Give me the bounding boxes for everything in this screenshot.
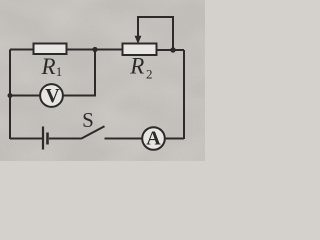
svg-text:R: R — [41, 54, 56, 79]
svg-text:1: 1 — [56, 64, 63, 79]
svg-text:2: 2 — [146, 67, 153, 82]
svg-text:A: A — [146, 128, 161, 150]
svg-text:S: S — [82, 108, 94, 132]
svg-text:R: R — [129, 54, 144, 79]
svg-text:V: V — [45, 85, 60, 107]
